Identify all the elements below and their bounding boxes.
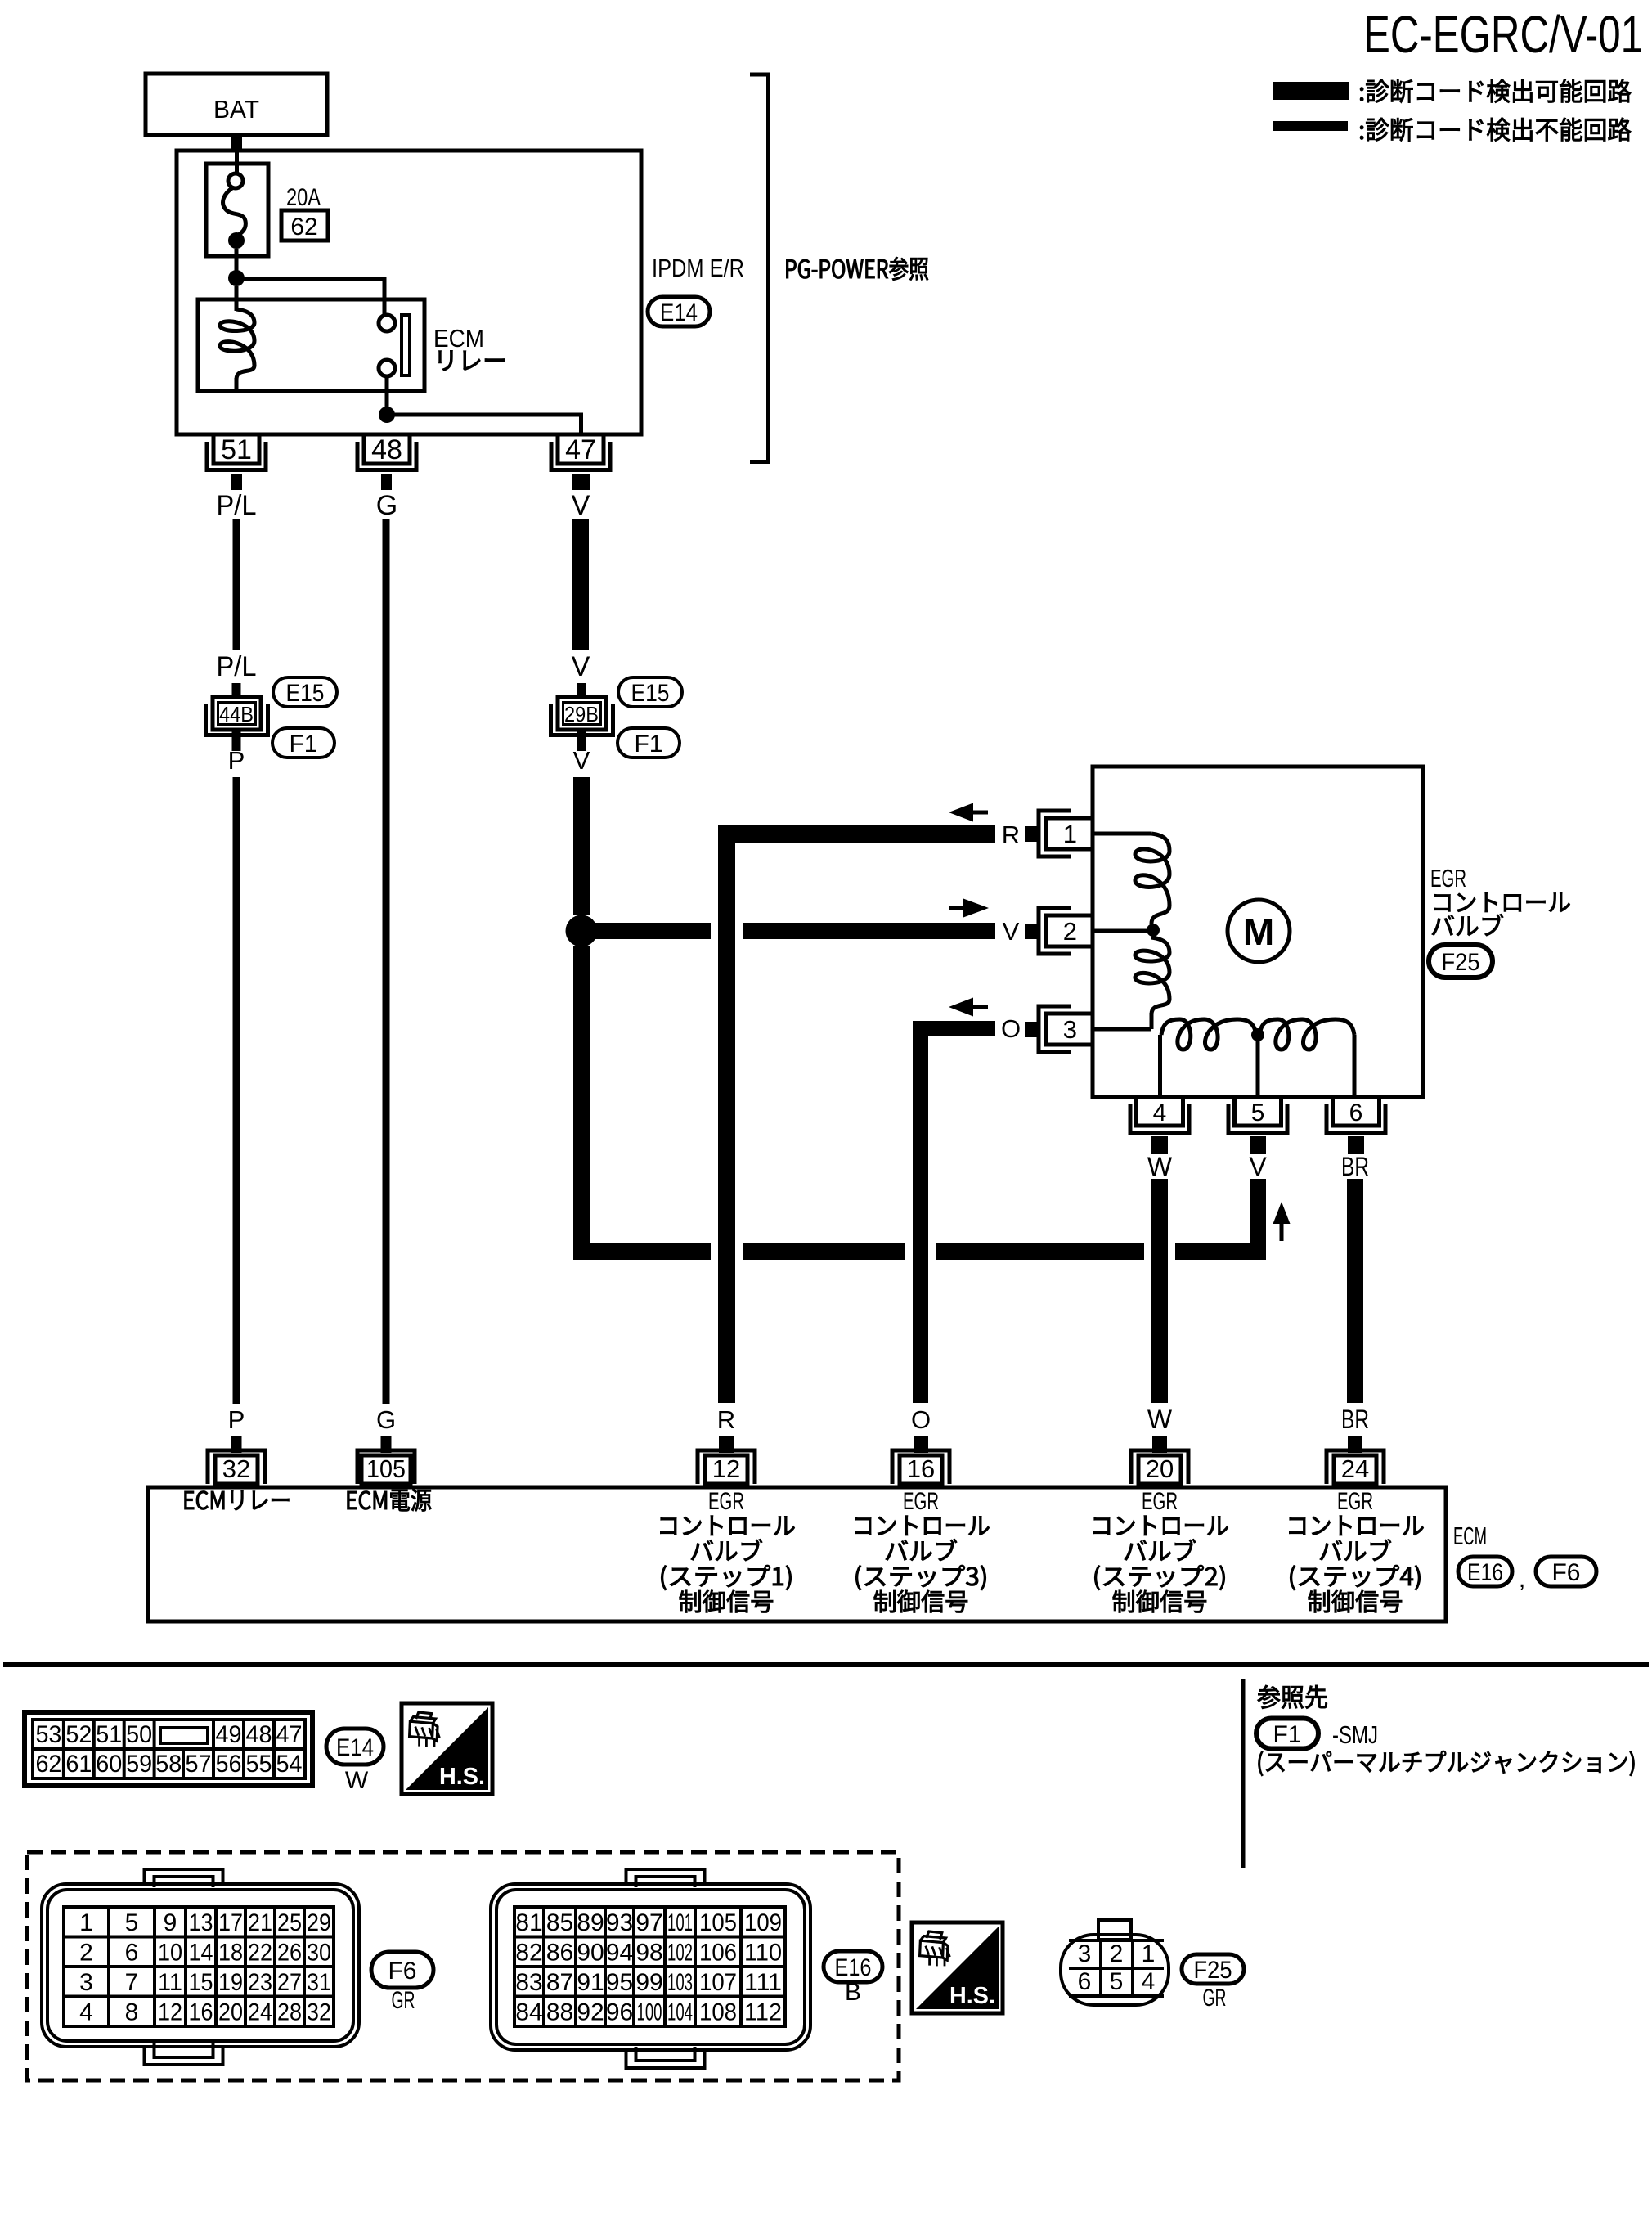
- svg-text:29: 29: [307, 1909, 331, 1936]
- motor M: [1228, 900, 1290, 962]
- svg-text:104: 104: [667, 1999, 693, 2026]
- legend thin-line symbol (DTC not detectable): [1273, 121, 1348, 131]
- svg-text:23: 23: [248, 1969, 272, 1996]
- svg-text:EC-EGRC/V-01: EC-EGRC/V-01: [1363, 5, 1643, 64]
- svg-text:84: 84: [515, 1999, 542, 2026]
- stub pin2 EGR: [1025, 924, 1040, 939]
- junction dot winding C-D: [1251, 1028, 1264, 1041]
- svg-text:-SMJ: -SMJ: [1332, 1720, 1378, 1749]
- splice 44B bracket: [206, 704, 268, 735]
- EGR control valve box: [1093, 767, 1423, 1097]
- svg-text:14: 14: [189, 1940, 213, 1967]
- svg-text:H.S.: H.S.: [439, 1764, 485, 1790]
- coil pin5-pin6 (winding D): [1259, 1019, 1354, 1050]
- svg-text:V: V: [1249, 1152, 1267, 1181]
- svg-text:30: 30: [307, 1940, 331, 1967]
- svg-text:95: 95: [606, 1969, 633, 1996]
- svg-text:GR: GR: [392, 1987, 415, 2014]
- svg-text:12: 12: [158, 1999, 182, 2026]
- svg-text:EGR: EGR: [903, 1488, 939, 1515]
- junction dot fuse output: [228, 270, 245, 286]
- svg-text:BAT: BAT: [213, 95, 259, 124]
- svg-text:GR: GR: [1203, 1985, 1227, 2012]
- svg-text:F6: F6: [1551, 1559, 1580, 1586]
- svg-text:81: 81: [515, 1909, 542, 1936]
- relay contact armature: [402, 315, 410, 375]
- connector ref E15 (V wire): [618, 677, 682, 707]
- svg-text:101: 101: [667, 1909, 693, 1936]
- wire V segment 3 (thick): [573, 946, 590, 1260]
- svg-text:W: W: [1147, 1405, 1173, 1434]
- svg-text:,: ,: [1519, 1564, 1526, 1593]
- svg-text:61: 61: [65, 1751, 92, 1778]
- svg-text:2: 2: [1063, 917, 1077, 946]
- svg-text:105: 105: [699, 1909, 737, 1936]
- splice 29B stub bottom: [577, 731, 586, 751]
- svg-text:85: 85: [546, 1909, 573, 1936]
- pin 3: [1046, 1014, 1093, 1045]
- reference divider line: [1241, 1679, 1246, 1868]
- svg-text:5: 5: [1110, 1968, 1124, 1995]
- svg-text:F25: F25: [1194, 1957, 1232, 1984]
- svg-text:29B: 29B: [564, 702, 599, 726]
- pin 16: [900, 1455, 942, 1484]
- ECM box: [148, 1487, 1446, 1621]
- svg-text:20: 20: [218, 1999, 243, 2026]
- svg-text:55: 55: [246, 1751, 272, 1778]
- svg-text:22: 22: [248, 1940, 272, 1967]
- relay contact upper terminal: [379, 315, 395, 331]
- svg-text:44B: 44B: [219, 702, 254, 726]
- wire junction to relay contact: [236, 277, 386, 281]
- pin 48: [364, 434, 410, 464]
- svg-text:108: 108: [699, 1999, 737, 2026]
- svg-text:86: 86: [546, 1940, 573, 1967]
- pin 51: [213, 434, 259, 464]
- svg-text:P/L: P/L: [217, 490, 257, 521]
- svg-text:17: 17: [218, 1909, 243, 1936]
- arrow input O: [949, 998, 973, 1017]
- svg-text:V: V: [1003, 917, 1020, 946]
- svg-text:83: 83: [515, 1969, 542, 1996]
- connector ref F6 (ECM): [1536, 1557, 1596, 1586]
- svg-text:10: 10: [158, 1940, 182, 1967]
- svg-text:98: 98: [635, 1940, 662, 1967]
- ECM label: ECM power: [348, 1489, 432, 1511]
- stub ECM pin 16: [914, 1436, 928, 1453]
- svg-text:60: 60: [96, 1751, 122, 1778]
- svg-text:19: 19: [218, 1969, 243, 1996]
- svg-text:4: 4: [1153, 1099, 1167, 1126]
- wire O vertical (thick): [913, 1021, 928, 1403]
- stub ECM pin 20: [1152, 1436, 1167, 1453]
- stub ECM pin 105: [381, 1436, 392, 1453]
- connector ref E14: [648, 297, 710, 326]
- junction dot relay output: [379, 407, 395, 423]
- svg-text:90: 90: [577, 1940, 604, 1967]
- splice 29B stub top: [577, 683, 586, 697]
- svg-text:28: 28: [277, 1999, 302, 2026]
- svg-text:48: 48: [371, 434, 402, 465]
- arrow output V: [963, 899, 989, 918]
- dashed detail box: [27, 1852, 899, 2080]
- svg-text:88: 88: [546, 1999, 573, 2026]
- svg-text:EGR: EGR: [1142, 1488, 1178, 1515]
- svg-text:6: 6: [1349, 1099, 1363, 1126]
- svg-text:R: R: [717, 1405, 735, 1434]
- svg-text:24: 24: [1341, 1454, 1369, 1483]
- svg-text:R: R: [1002, 821, 1020, 849]
- pin 2: [1046, 915, 1093, 946]
- svg-text:21: 21: [248, 1909, 272, 1936]
- ECM label: EGR valve step1 signal: [661, 1488, 795, 1612]
- svg-text:49: 49: [216, 1721, 242, 1748]
- svg-text:P: P: [228, 1405, 245, 1434]
- svg-text:50: 50: [126, 1721, 152, 1748]
- svg-text:1: 1: [1063, 820, 1077, 848]
- svg-text:105: 105: [366, 1454, 406, 1483]
- svg-text:G: G: [376, 1405, 396, 1434]
- arrow input R: [949, 803, 973, 822]
- wire V horizontal lower (thick): [573, 1243, 711, 1260]
- stub pin 47: [572, 474, 590, 490]
- svg-text:109: 109: [744, 1909, 782, 1936]
- pin 32: [215, 1455, 258, 1484]
- svg-text:O: O: [1001, 1014, 1021, 1043]
- wire pin6 internal: [1353, 1035, 1357, 1097]
- connector ref F25: [1429, 945, 1493, 978]
- svg-text:97: 97: [635, 1909, 662, 1936]
- svg-text:E15: E15: [631, 680, 670, 707]
- svg-text:48: 48: [246, 1721, 272, 1748]
- svg-text:20: 20: [1146, 1454, 1174, 1483]
- junction dot V wire: [566, 915, 598, 947]
- svg-text:53: 53: [35, 1721, 61, 1748]
- svg-text:15: 15: [189, 1969, 213, 1996]
- wire junction to relay coil: [235, 286, 239, 311]
- wire O horizontal (thick): [913, 1021, 995, 1036]
- svg-text:18: 18: [218, 1940, 243, 1967]
- ECM label: EGR valve step4 signal: [1290, 1488, 1424, 1612]
- svg-text:93: 93: [606, 1909, 633, 1936]
- svg-text:V: V: [572, 651, 590, 682]
- svg-text:94: 94: [606, 1940, 633, 1967]
- svg-text:E14: E14: [336, 1734, 374, 1761]
- svg-text:99: 99: [635, 1969, 662, 1996]
- svg-text:111: 111: [744, 1969, 782, 1996]
- svg-text:O: O: [911, 1405, 931, 1434]
- svg-text:24: 24: [248, 1999, 272, 2026]
- wire pin4 internal: [1158, 1035, 1162, 1097]
- relay contact lower terminal: [379, 360, 395, 376]
- stub ECM pin 12: [719, 1436, 734, 1453]
- splice 44B stub bottom: [232, 731, 241, 751]
- svg-text:EGR: EGR: [1337, 1488, 1373, 1515]
- pin 4: [1137, 1097, 1183, 1126]
- svg-text:4: 4: [1142, 1968, 1156, 1995]
- svg-text:B: B: [845, 1979, 861, 2006]
- svg-text:3: 3: [1078, 1940, 1092, 1967]
- pin 20: [1138, 1455, 1181, 1484]
- harness view icon H.S. (E14): [402, 1703, 492, 1794]
- svg-text:112: 112: [744, 1999, 782, 2026]
- svg-text:92: 92: [577, 1999, 604, 2026]
- svg-text:E15: E15: [286, 680, 325, 707]
- svg-text:91: 91: [577, 1969, 604, 1996]
- coil pin1-pin2 (step motor winding A): [1135, 834, 1169, 924]
- arrow output V pin5: [1273, 1202, 1291, 1224]
- splice 44B box: [213, 697, 261, 730]
- connector pinout E16: [491, 1884, 810, 2050]
- svg-text:31: 31: [307, 1969, 331, 1996]
- svg-text:V: V: [572, 490, 590, 521]
- ECM label: ECM relay: [185, 1490, 290, 1510]
- stub pin3 EGR: [1025, 1022, 1040, 1037]
- connector ref F1 (V wire): [617, 728, 680, 758]
- svg-text:59: 59: [126, 1751, 152, 1778]
- wire R vertical (thick): [718, 825, 735, 1403]
- svg-text:2: 2: [79, 1940, 93, 1967]
- svg-text:5: 5: [1251, 1099, 1265, 1126]
- legend text: DTC detectable circuit: [1360, 79, 1631, 103]
- svg-text:5: 5: [125, 1909, 139, 1936]
- connector pinout F6: [42, 1884, 359, 2047]
- wire P segment: [233, 777, 240, 1404]
- svg-text:16: 16: [907, 1454, 935, 1483]
- pin 1: [1046, 818, 1093, 849]
- svg-text:11: 11: [158, 1969, 182, 1996]
- svg-text:6: 6: [1078, 1968, 1092, 1995]
- wire into fuse: [235, 151, 239, 175]
- pin 47: [558, 434, 604, 464]
- svg-text:27: 27: [277, 1969, 302, 1996]
- svg-text:47: 47: [276, 1721, 303, 1748]
- svg-text:3: 3: [79, 1969, 93, 1996]
- svg-text:110: 110: [744, 1940, 782, 1967]
- connector ref E14 (pinout): [326, 1729, 384, 1765]
- label reference: [1258, 1685, 1327, 1709]
- svg-text:F6: F6: [388, 1958, 416, 1985]
- svg-text:96: 96: [606, 1999, 633, 2026]
- stub pin 48: [381, 474, 392, 490]
- wire W segment (thick): [1151, 1179, 1168, 1403]
- svg-text:W: W: [1147, 1152, 1173, 1181]
- label super multiple junction: [1259, 1751, 1635, 1776]
- pin 5: [1235, 1097, 1282, 1126]
- connector ref E15 (left): [273, 677, 337, 707]
- junction dot winding A: [1147, 924, 1160, 937]
- svg-text:62: 62: [35, 1751, 61, 1778]
- svg-text:1: 1: [1142, 1940, 1156, 1967]
- svg-text:BR: BR: [1341, 1405, 1369, 1434]
- pin 12: [705, 1455, 747, 1484]
- svg-text:3: 3: [1063, 1015, 1077, 1044]
- connector ref E16 (ECM): [1458, 1557, 1512, 1586]
- stub pin 6: [1348, 1136, 1364, 1154]
- fuse number 62: [281, 210, 328, 241]
- svg-text:E16: E16: [1467, 1559, 1503, 1586]
- splice 29B box: [558, 697, 606, 730]
- svg-text:26: 26: [277, 1940, 302, 1967]
- ECM label: EGR valve step3 signal: [855, 1488, 990, 1612]
- fuse 20A 62 box: [206, 164, 268, 256]
- separator line: [3, 1662, 1649, 1667]
- connector ref F1 (reference): [1256, 1719, 1318, 1749]
- stub pin 5: [1250, 1136, 1266, 1154]
- svg-text:P/L: P/L: [217, 651, 257, 682]
- svg-text:F25: F25: [1442, 949, 1480, 976]
- connector pinout F25: [1098, 1920, 1131, 1940]
- svg-text:ECM: ECM: [433, 324, 484, 353]
- svg-text:58: 58: [155, 1751, 182, 1778]
- wire V segment (thick): [572, 519, 589, 650]
- svg-text:102: 102: [667, 1940, 693, 1967]
- label PG-POWER reference: [787, 257, 928, 281]
- svg-text:G: G: [376, 490, 397, 521]
- svg-text:47: 47: [565, 434, 596, 465]
- svg-text:62: 62: [290, 214, 317, 241]
- wire V to pin2 (thick): [581, 923, 711, 939]
- svg-text:103: 103: [667, 1969, 693, 1996]
- bracket PG-POWER: [750, 74, 769, 462]
- svg-text:51: 51: [96, 1721, 122, 1748]
- svg-text:57: 57: [186, 1751, 212, 1778]
- svg-text:87: 87: [546, 1969, 573, 1996]
- fuse output dot: [228, 232, 245, 249]
- svg-text:IPDM E/R: IPDM E/R: [652, 254, 744, 282]
- svg-text:56: 56: [216, 1751, 242, 1778]
- svg-text:W: W: [345, 1767, 369, 1794]
- wire pin3 internal: [1093, 1027, 1151, 1032]
- svg-text:E16: E16: [835, 1954, 872, 1981]
- wire P/L segment: [233, 519, 240, 650]
- relay box ECM relay: [198, 299, 424, 391]
- wire V pin5 segment (thick): [1250, 1179, 1266, 1260]
- svg-text:32: 32: [307, 1999, 331, 2026]
- svg-text:EGR: EGR: [708, 1488, 744, 1515]
- svg-text:52: 52: [65, 1721, 92, 1748]
- coil pin4-pin5 (winding C): [1161, 1019, 1256, 1050]
- battery BAT: [146, 74, 327, 135]
- wire pin2 internal: [1093, 929, 1148, 933]
- legend text: DTC not detectable circuit: [1360, 118, 1631, 142]
- coil pin2-pin3 (step motor winding B): [1135, 937, 1169, 1014]
- svg-text:E14: E14: [660, 299, 698, 326]
- svg-text:BR: BR: [1341, 1152, 1369, 1181]
- svg-text:P: P: [228, 746, 245, 775]
- svg-text:7: 7: [125, 1969, 139, 1996]
- svg-text:82: 82: [515, 1940, 542, 1967]
- svg-text:V: V: [573, 746, 590, 775]
- wire junction to pin 47: [387, 413, 579, 417]
- svg-text:89: 89: [577, 1909, 604, 1936]
- wire BR segment (thick): [1347, 1179, 1363, 1403]
- svg-text:F1: F1: [1273, 1721, 1301, 1748]
- stub pin1 EGR: [1025, 826, 1040, 842]
- stub pin 51: [231, 474, 242, 490]
- splice 29B bracket: [551, 704, 613, 735]
- pin 24: [1334, 1455, 1376, 1484]
- stub pin 4: [1151, 1136, 1168, 1154]
- fuse element: [228, 173, 243, 188]
- svg-text:1: 1: [79, 1909, 93, 1936]
- connector pinout E14: [25, 1712, 312, 1786]
- wire relay to pin 48: [385, 376, 389, 416]
- svg-text:ECM: ECM: [1453, 1522, 1487, 1550]
- svg-text:107: 107: [699, 1969, 737, 1996]
- legend thick-line symbol (DTC detectable): [1273, 82, 1349, 100]
- svg-text:EGR: EGR: [1430, 864, 1466, 892]
- svg-text:100: 100: [637, 1999, 662, 2026]
- svg-text:20A: 20A: [286, 184, 321, 211]
- wire G segment: [383, 519, 390, 1404]
- svg-text:13: 13: [189, 1909, 213, 1936]
- harness view icon H.S. (E16): [912, 1922, 1003, 2013]
- svg-text:51: 51: [221, 434, 252, 465]
- connector ref F1 (left): [272, 728, 334, 758]
- svg-text:2: 2: [1110, 1940, 1124, 1967]
- ECM label: EGR valve step2 signal: [1094, 1488, 1228, 1612]
- svg-text:4: 4: [79, 1999, 93, 2026]
- svg-text:9: 9: [164, 1909, 177, 1936]
- svg-text:6: 6: [125, 1940, 139, 1967]
- svg-text:12: 12: [712, 1454, 740, 1483]
- wire V segment 2 (thick): [573, 777, 590, 915]
- wire BAT to IPDM: [231, 133, 242, 152]
- wire pin1 internal: [1093, 832, 1151, 836]
- svg-text:M: M: [1243, 910, 1274, 953]
- IPDM E/R box: [177, 151, 641, 434]
- svg-text:54: 54: [276, 1751, 303, 1778]
- connector ref F25 (pinout): [1182, 1954, 1244, 1984]
- svg-text:F1: F1: [289, 731, 317, 758]
- stub ECM pin 32: [231, 1436, 242, 1453]
- pin 105: [361, 1455, 411, 1484]
- connector ref F6 (pinout): [371, 1952, 433, 1988]
- svg-text:F1: F1: [634, 731, 662, 758]
- wire fuse to junction: [235, 249, 239, 273]
- pin 6: [1333, 1097, 1380, 1126]
- svg-text:16: 16: [189, 1999, 213, 2026]
- splice 44B stub top: [232, 683, 241, 697]
- connector ref E16 (pinout): [824, 1951, 882, 1982]
- wire R horizontal (thick): [718, 825, 995, 843]
- svg-text:H.S.: H.S.: [949, 1983, 995, 2009]
- stub ECM pin 24: [1348, 1436, 1362, 1453]
- svg-text:8: 8: [125, 1999, 139, 2026]
- wire pin5 internal: [1256, 1041, 1260, 1097]
- svg-text:106: 106: [699, 1940, 737, 1967]
- svg-text:25: 25: [277, 1909, 302, 1936]
- svg-text:32: 32: [222, 1454, 250, 1483]
- relay coil: [220, 309, 254, 380]
